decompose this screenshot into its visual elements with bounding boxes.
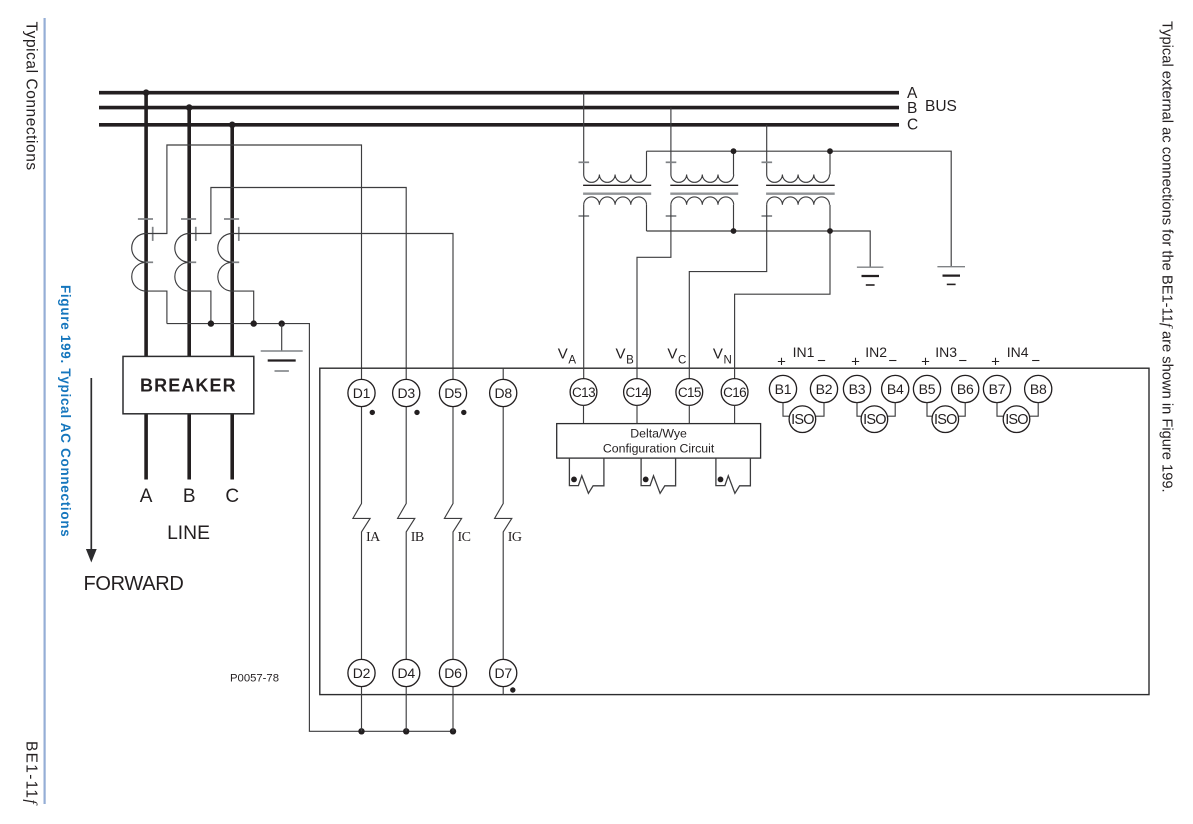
svg-text:D7: D7	[494, 665, 512, 681]
ground (VT primary)	[937, 267, 965, 285]
terminal B5	[913, 375, 940, 402]
Delta/Wye configuration circuit box	[557, 424, 761, 459]
ground (VT secondary)	[857, 267, 884, 285]
polarity dot D5	[461, 410, 466, 415]
svg-text:IN4: IN4	[1007, 344, 1029, 360]
svg-text:+: +	[851, 354, 860, 371]
polarity dot D7	[510, 687, 515, 692]
svg-text:V: V	[713, 346, 723, 363]
wire VC to C15	[689, 205, 766, 379]
phase B feeder conductor	[186, 104, 193, 479]
wire C15 to config box	[688, 405, 690, 423]
svg-text:D3: D3	[397, 385, 415, 401]
wire D5 to D6 with disconnect	[444, 407, 461, 660]
wire C16 to config box	[734, 405, 736, 423]
svg-text:B6: B6	[957, 381, 974, 397]
junction dots on lower common	[358, 728, 456, 734]
svg-text:−: −	[1031, 353, 1040, 370]
svg-text:BUS: BUS	[925, 98, 957, 115]
wire D4 to common	[405, 687, 407, 732]
svg-text:Typical Connections: Typical Connections	[23, 22, 40, 171]
svg-text:P0057-78: P0057-78	[230, 673, 279, 685]
svg-text:+: +	[991, 354, 1000, 371]
burden element 1	[569, 458, 604, 493]
terminal D8	[490, 379, 517, 406]
isolator IN3	[932, 406, 959, 433]
svg-text:V: V	[558, 346, 568, 363]
isolator IN4	[1003, 406, 1030, 433]
svg-text:+: +	[921, 354, 930, 371]
terminal B3	[843, 375, 870, 402]
svg-text:B2: B2	[816, 381, 833, 397]
wire D8 to D7 with disconnect	[495, 407, 512, 660]
wire CT C secondary to D5	[232, 234, 453, 380]
wire VN to C16	[735, 231, 830, 379]
svg-text:D2: D2	[353, 665, 371, 681]
svg-text:IA: IA	[366, 530, 381, 545]
svg-text:ISO: ISO	[1005, 412, 1028, 428]
svg-text:V: V	[616, 346, 626, 363]
svg-text:D8: D8	[494, 385, 512, 401]
terminal D7	[490, 659, 517, 686]
wire CT B return	[189, 291, 211, 324]
wire VA to C13	[583, 205, 585, 379]
polarity dot D1	[370, 410, 375, 415]
terminal D5	[439, 379, 466, 406]
terminal B1	[769, 375, 796, 402]
terminal B2	[810, 375, 837, 402]
ground (CT common)	[261, 324, 303, 371]
svg-text:IB: IB	[411, 530, 424, 545]
svg-text:BE1-11f: BE1-11f	[23, 741, 40, 806]
bus C	[99, 123, 899, 127]
wire D3 to D4 with disconnect	[398, 407, 415, 660]
svg-text:C15: C15	[678, 385, 701, 400]
svg-text:B8: B8	[1030, 381, 1047, 397]
VT primary common tie	[647, 151, 952, 266]
terminal D3	[393, 379, 420, 406]
svg-text:B5: B5	[919, 381, 936, 397]
wire CT C return	[232, 291, 254, 324]
svg-text:Typical external ac connection: Typical external ac connections for the …	[1159, 21, 1175, 493]
svg-text:C: C	[678, 355, 686, 367]
terminal C14	[624, 379, 651, 406]
svg-text:IN1: IN1	[793, 344, 815, 360]
terminal D4	[393, 659, 420, 686]
svg-text:−: −	[817, 353, 826, 370]
wire C14 to config box	[636, 405, 638, 423]
svg-text:LINE: LINE	[167, 523, 210, 544]
wire B7/B8 to isolator	[997, 403, 1004, 417]
burden element 2	[641, 458, 676, 493]
wire CT A return	[146, 291, 167, 324]
bus B	[99, 106, 899, 110]
isolator IN1	[789, 406, 816, 433]
svg-text:D6: D6	[444, 665, 462, 681]
CT C	[218, 219, 239, 291]
svg-text:C: C	[907, 117, 918, 134]
terminal B8	[1025, 375, 1052, 402]
svg-text:−: −	[958, 353, 967, 370]
CT B	[175, 219, 196, 291]
svg-text:ISO: ISO	[934, 412, 957, 428]
relay case outline	[320, 368, 1149, 694]
terminal B7	[983, 375, 1010, 402]
svg-text:B4: B4	[887, 381, 904, 397]
terminal C13	[570, 379, 597, 406]
svg-text:Figure 199. Typical AC Connect: Figure 199. Typical AC Connections	[58, 285, 73, 537]
polarity dot D3	[414, 410, 419, 415]
terminal C16	[721, 379, 748, 406]
wire B3/B4 to isolator	[857, 403, 862, 417]
svg-text:B3: B3	[849, 381, 866, 397]
wire D6 to common	[452, 687, 454, 732]
svg-text:N: N	[724, 355, 732, 367]
wire D2 to common	[361, 687, 363, 732]
wire CT A secondary to D1	[146, 145, 361, 379]
svg-text:−: −	[888, 353, 897, 370]
FORWARD arrow	[86, 378, 97, 563]
svg-text:D4: D4	[397, 665, 415, 681]
svg-text:IC: IC	[458, 530, 471, 545]
junction dots on CT common	[208, 320, 285, 326]
svg-text:Delta/Wye: Delta/Wye	[630, 427, 687, 441]
svg-text:A: A	[568, 355, 576, 367]
svg-text:FORWARD: FORWARD	[83, 573, 183, 595]
svg-text:D5: D5	[444, 385, 462, 401]
wire C13 to config box	[583, 405, 585, 423]
wire CT common return bus	[167, 324, 453, 732]
svg-text:IG: IG	[508, 530, 522, 545]
svg-text:B7: B7	[989, 381, 1006, 397]
terminal B4	[882, 375, 909, 402]
svg-text:C: C	[225, 486, 239, 507]
svg-text:B: B	[626, 355, 634, 367]
svg-text:C14: C14	[626, 385, 650, 400]
terminal C15	[676, 379, 703, 406]
wire B5/B6 to isolator	[927, 403, 933, 417]
breaker box	[123, 356, 254, 413]
svg-text:C16: C16	[723, 385, 746, 400]
VT B	[666, 108, 739, 231]
bus A	[99, 91, 899, 95]
CT A	[132, 219, 153, 291]
svg-text:Configuration Circuit: Configuration Circuit	[603, 441, 715, 455]
terminal D6	[439, 659, 466, 686]
svg-text:ISO: ISO	[791, 412, 814, 428]
terminal B6	[952, 375, 979, 402]
wire D1 to D2 with disconnect	[353, 407, 370, 660]
wire CT B secondary to D3	[189, 188, 406, 380]
svg-text:+: +	[777, 354, 786, 371]
wire VB to C14	[637, 205, 671, 379]
VT secondary common tie	[647, 231, 871, 267]
burden element 3	[716, 458, 751, 493]
left margin blue rule	[43, 18, 45, 804]
svg-text:IN2: IN2	[865, 344, 887, 360]
svg-text:B1: B1	[775, 381, 792, 397]
svg-text:IN3: IN3	[935, 344, 957, 360]
svg-text:ISO: ISO	[863, 412, 886, 428]
wire B1/B2 to isolator	[783, 403, 790, 417]
svg-text:D1: D1	[353, 385, 371, 401]
VT C	[762, 125, 835, 231]
wire D8 stub	[502, 368, 504, 379]
wire D7 stub	[502, 687, 504, 695]
phase C feeder conductor	[229, 122, 236, 480]
svg-text:B: B	[183, 486, 196, 507]
VT A	[579, 93, 652, 231]
svg-text:C13: C13	[572, 385, 595, 400]
svg-text:V: V	[667, 346, 677, 363]
terminal D1	[348, 379, 375, 406]
isolator IN2	[861, 406, 888, 433]
svg-text:BREAKER: BREAKER	[140, 376, 237, 396]
terminal D2	[348, 659, 375, 686]
phase A feeder conductor	[143, 89, 150, 479]
svg-text:B: B	[907, 100, 917, 117]
svg-text:A: A	[140, 486, 153, 507]
